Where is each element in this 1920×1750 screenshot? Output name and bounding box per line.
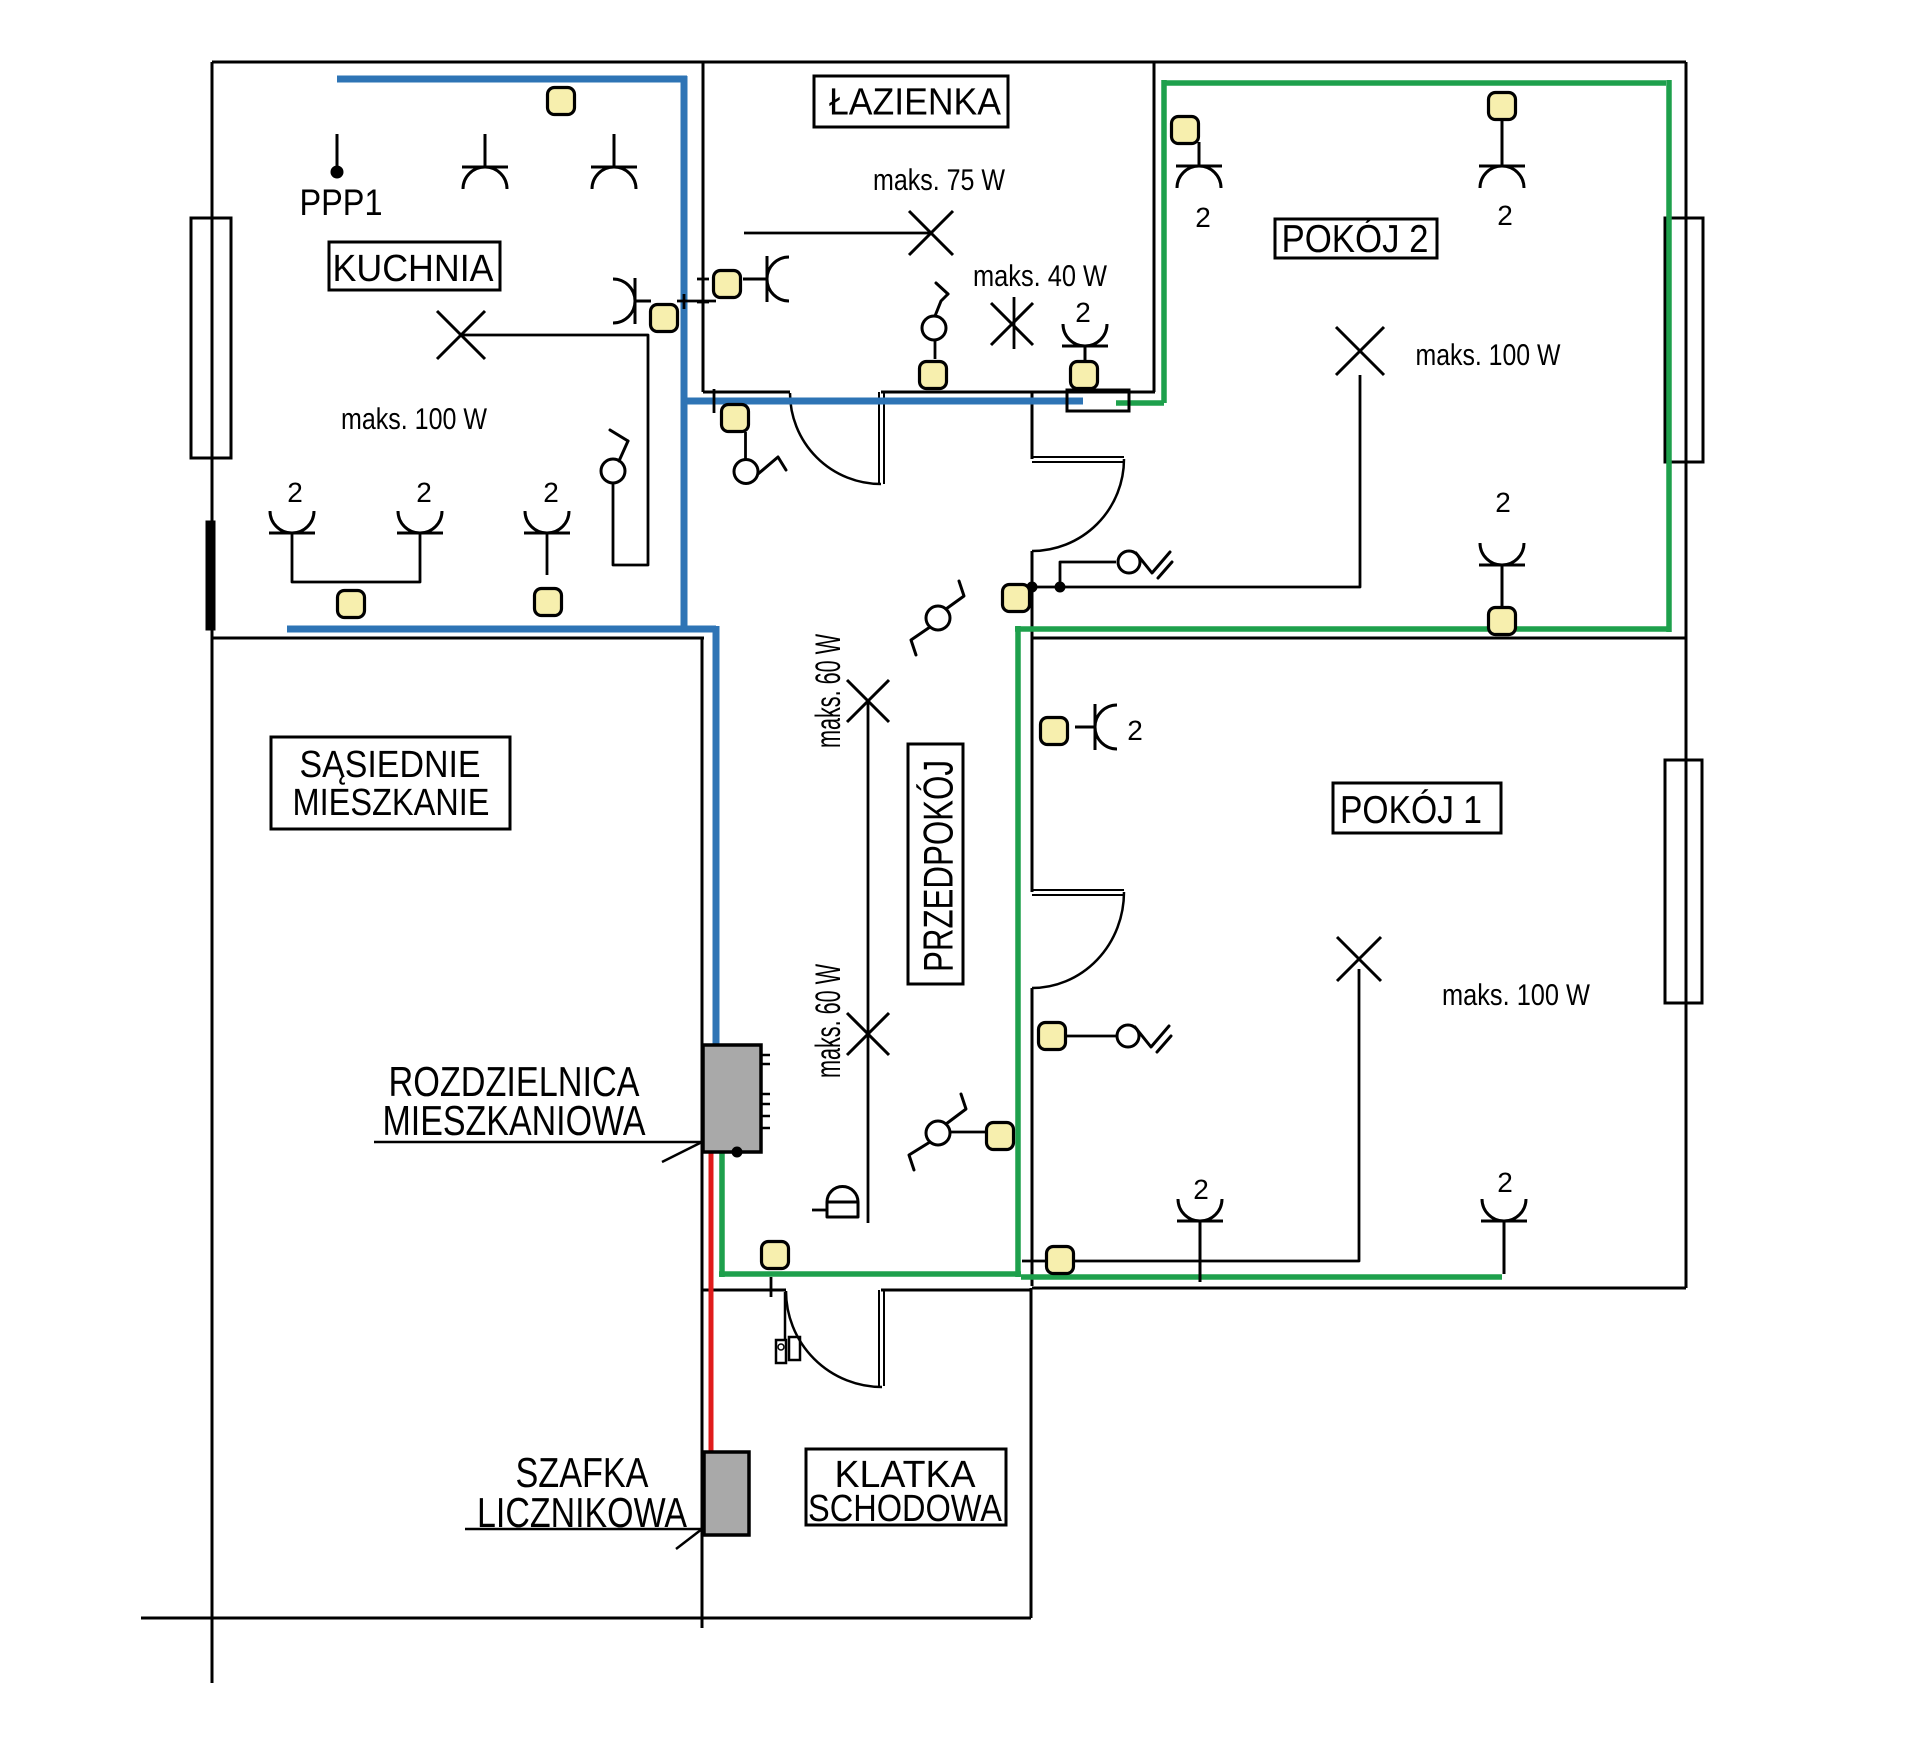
svg-text:POKÓJ 2: POKÓJ 2 [1281, 218, 1428, 261]
wall klatka bottom [141, 1617, 1031, 1620]
socket pokoj2 nw [1176, 142, 1222, 233]
wall hallway bottom right [881, 1289, 1032, 1292]
svg-text:maks. 100 W: maks. 100 W [1442, 979, 1591, 1012]
junction box pokoj2 s [1489, 608, 1516, 635]
socket pokoj1 nw [1075, 704, 1143, 750]
wall hallway-pokoj2 upper [1031, 392, 1034, 459]
svg-text:maks. 40 W: maks. 40 W [973, 260, 1108, 293]
svg-text:2: 2 [1497, 1167, 1513, 1198]
junction box pokoj1 switch [1039, 1023, 1066, 1050]
junction box pokoj2 wall [1003, 585, 1030, 612]
label POKOJ1 box [1333, 783, 1501, 833]
svg-text:2: 2 [1495, 487, 1511, 518]
socket kitchen bottom 3 [524, 477, 570, 533]
svg-text:maks. 60 W: maks. 60 W [809, 964, 848, 1078]
doorbell button at entrance [776, 1292, 800, 1363]
junction box hallway lower switch [987, 1123, 1014, 1150]
wall kitchen-bathroom [702, 62, 705, 392]
wall hallway bottom left [703, 1289, 786, 1292]
wire green hallway bottom [719, 1271, 1021, 1277]
wall pokoj2 bottom [1032, 637, 1686, 640]
label PRZEDPOKOJ box [908, 744, 963, 984]
lamp kitchen X [437, 311, 485, 359]
wall hallway-pokoj2 lower [1031, 551, 1034, 892]
label KLATKA box [806, 1449, 1006, 1530]
wire kitchen wall crossing [677, 279, 716, 309]
socket kitchen top 1 [462, 134, 508, 189]
junction box kitchen bottom mid [338, 591, 365, 618]
door bathroom [790, 392, 884, 484]
wire kitchen socket3 stem [546, 533, 549, 575]
wire pokoj2 lamp run [1034, 375, 1360, 587]
svg-text:2: 2 [1195, 202, 1211, 233]
wall pokoj1 bottom [1032, 1287, 1686, 1290]
junction box hallway top [722, 405, 749, 432]
svg-text:KUCHNIA: KUCHNIA [332, 248, 494, 290]
svg-text:POKÓJ 1: POKÓJ 1 [1340, 789, 1482, 832]
label LAZIENKA box [814, 76, 1008, 127]
label maks60 upper [809, 634, 848, 748]
wire blue crossing tick [713, 389, 716, 413]
junction box kitchen right wall [651, 305, 678, 332]
svg-text:SCHODOWA: SCHODOWA [808, 1488, 1003, 1530]
switch bathroom [922, 283, 948, 359]
wire pokoj1 lamp run [1022, 969, 1359, 1261]
wire blue kitchen vertical [681, 76, 688, 632]
window kitchen left wall [191, 218, 231, 458]
junction box pokoj1 line [1047, 1247, 1074, 1274]
wall outer right [1685, 62, 1688, 1288]
junction box kitchen top [548, 88, 575, 115]
svg-text:2: 2 [1127, 715, 1143, 746]
svg-text:2: 2 [1497, 200, 1513, 231]
svg-text:maks. 100 W: maks. 100 W [341, 403, 488, 436]
label maks100 kitchen [341, 403, 488, 436]
lamp hallway upper X [847, 680, 889, 722]
socket bathroom left wall [743, 256, 789, 302]
window pokoj1 right wall [1665, 760, 1702, 1003]
bell doorbell D [812, 1187, 858, 1218]
wall kitchen bottom / sasiednie top [212, 637, 704, 640]
lamp bathroom 40W wall [991, 297, 1033, 349]
wire kitchen sockets connector [292, 533, 420, 582]
lamp pokoj1 X [1337, 937, 1381, 981]
wall bathroom bottom left [703, 391, 790, 394]
socket kitchen bottom 2 [397, 477, 443, 533]
wall klatka right [1030, 1288, 1033, 1618]
wire hallway top switch stem [744, 432, 747, 460]
door pokoj2 [1032, 457, 1124, 551]
wire green pokoj1 bottom [1021, 1274, 1502, 1280]
distribution board gray box [703, 1045, 770, 1157]
label SZAFKA [477, 1449, 687, 1536]
label maks100 pokoj1 [1442, 979, 1591, 1012]
wire blue kitchen bottom [287, 626, 716, 633]
wall bathroom-pokoj2 [1153, 62, 1156, 392]
label maks40 [973, 260, 1108, 293]
wire green crossing tick [770, 1277, 773, 1297]
meter cabinet gray box [704, 1452, 749, 1535]
svg-text:2: 2 [543, 477, 559, 508]
svg-text:MIESZKANIOWA: MIESZKANIOWA [382, 1097, 645, 1144]
junction dot pokoj2 b [1055, 582, 1065, 592]
lamp pokoj2 X [1336, 327, 1384, 375]
junction box hallway green bottom [762, 1242, 789, 1269]
socket bathroom double [1062, 297, 1108, 361]
junction box bathroom socket [1071, 362, 1098, 389]
junction box pokoj1 nw [1041, 718, 1068, 745]
switch pokoj1 two-way [1117, 1025, 1171, 1052]
svg-text:2: 2 [1193, 1174, 1209, 1205]
wall thick segment left [206, 521, 215, 630]
label maks100 pokoj2 [1415, 339, 1561, 372]
wire pokoj1 switch stub [1066, 1035, 1117, 1038]
wire red meter feed [709, 1152, 714, 1453]
switch hallway lower series [909, 1094, 966, 1170]
svg-text:2: 2 [1075, 297, 1091, 328]
label PPP1 [299, 182, 382, 223]
wire green pokoj2 left [1161, 80, 1167, 403]
lamp bathroom 75W [744, 211, 953, 255]
junction box bathroom left wall [714, 271, 741, 298]
wall bathroom bottom right [881, 391, 1155, 394]
switch pokoj2 two-way [1118, 551, 1172, 578]
svg-text:maks. 60 W: maks. 60 W [809, 634, 848, 748]
wall hallway left [701, 638, 704, 1628]
svg-text:SĄSIEDNIE: SĄSIEDNIE [299, 744, 480, 786]
point PPP1 [331, 134, 343, 178]
socket pokoj2 n [1479, 119, 1525, 231]
junction dot pokoj2 a [1027, 582, 1037, 592]
wire green riser [719, 1152, 725, 1277]
wall outer top [212, 61, 1686, 64]
socket kitchen right wall [613, 278, 651, 324]
svg-text:2: 2 [416, 477, 432, 508]
label POKOJ2 box [1275, 218, 1437, 261]
wire blue hallway vertical [713, 626, 720, 1046]
svg-text:ŁAZIENKA: ŁAZIENKA [829, 81, 1002, 123]
svg-text:PPP1: PPP1 [299, 182, 382, 223]
junction box bathroom switch [920, 362, 947, 389]
wire pokoj2 switch stub [1060, 562, 1116, 587]
socket pokoj1 s2 [1481, 1167, 1527, 1274]
switch kitchen single [601, 430, 628, 483]
leader szafka [465, 1529, 702, 1549]
wire hallway lower switch [950, 1131, 987, 1134]
wire blue kitchen top [337, 76, 687, 83]
label maks60 lower [809, 964, 848, 1078]
label SASIEDNIE box [271, 737, 510, 829]
leader rozdzielnica [374, 1142, 702, 1162]
socket pokoj1 s1 [1177, 1174, 1223, 1282]
door pokoj1 [1032, 890, 1124, 988]
wall hallway-pokoj1 [1031, 988, 1034, 1286]
wire hallway lamps run [867, 701, 870, 1223]
wire green pokoj2 right [1666, 80, 1672, 632]
wire green pokoj2 stub [1116, 400, 1164, 406]
socket kitchen top 2 [591, 134, 637, 189]
label KUCHNIA box [329, 242, 500, 290]
junction pass-box bathroom wall [1067, 390, 1129, 411]
junction box kitchen bottom right [535, 589, 562, 616]
junction box pokoj2 nw [1172, 117, 1199, 144]
wire kitchen lamp run [461, 335, 648, 565]
svg-text:MIESZKANIE: MIESZKANIE [292, 782, 489, 824]
socket kitchen bottom 1 [269, 477, 315, 533]
wire green hallway-pokoj2 vertical [1015, 626, 1021, 1277]
svg-text:maks. 75 W: maks. 75 W [873, 164, 1006, 197]
socket pokoj2 s [1479, 487, 1525, 609]
label ROZDZIELNICA [382, 1058, 645, 1144]
junction box pokoj2 n [1489, 93, 1516, 120]
wall outer left [211, 62, 214, 1683]
window pokoj2 right wall [1665, 218, 1703, 462]
label maks75 [873, 164, 1006, 197]
wire green pokoj2 top [1163, 80, 1666, 86]
door entrance from staircase [786, 1290, 884, 1387]
svg-text:PRZEDPOKÓJ: PRZEDPOKÓJ [915, 760, 962, 972]
wire green pokoj2 bottom [1015, 626, 1669, 632]
wire blue bathroom branch [684, 398, 1083, 405]
lamp hallway lower X [847, 1013, 889, 1055]
svg-text:maks. 100 W: maks. 100 W [1415, 339, 1561, 372]
switch hallway top single [734, 457, 786, 484]
svg-text:2: 2 [287, 477, 303, 508]
switch hallway mid series [911, 581, 964, 655]
